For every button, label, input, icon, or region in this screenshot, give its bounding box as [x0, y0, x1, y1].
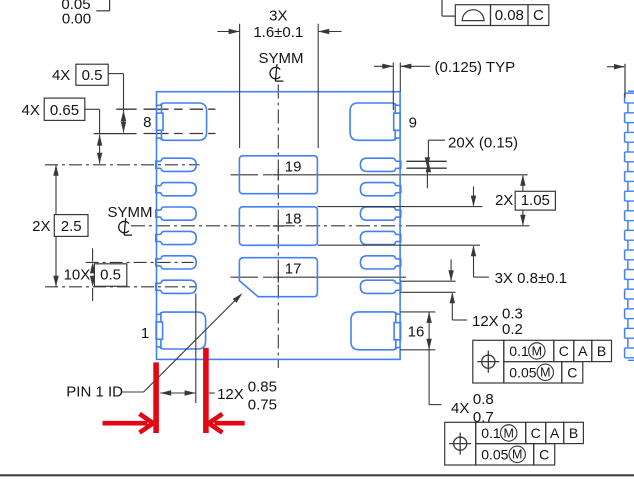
pad 17 center cross — [273, 276, 284, 278]
svg-text:2X: 2X — [495, 192, 513, 209]
svg-text:1.05: 1.05 — [521, 192, 550, 209]
red gauge line left — [153, 362, 159, 433]
svg-text:0.65: 0.65 — [50, 102, 79, 119]
thermal pad 19 — [239, 156, 317, 194]
svg-text:SYMM: SYMM — [259, 50, 304, 67]
lead hidden line pad 8 upper — [144, 108, 216, 110]
svg-text:16: 16 — [408, 324, 425, 341]
PIN 1 ID leader — [122, 391, 144, 393]
pad 1 edge jogs — [157, 312, 161, 349]
svg-text:0.05: 0.05 — [481, 447, 508, 463]
svg-text:1: 1 — [141, 325, 149, 342]
pad pin 10 (right row) — [360, 280, 400, 293]
leader stub 12X — [209, 392, 215, 394]
pad 9 lead tab — [394, 113, 401, 130]
pad pin 7 (left row) — [156, 280, 196, 293]
leader 3X 0.8 — [474, 276, 490, 278]
extension lines for 1.6 dim — [239, 24, 241, 148]
svg-text:A: A — [550, 425, 560, 441]
pad pin 12 (right row) — [360, 231, 400, 244]
arrows 0.8 dim — [473, 187, 475, 206]
svg-text:4X: 4X — [22, 102, 40, 119]
leader 20X (0.15) — [428, 139, 445, 141]
svg-text:8: 8 — [143, 114, 151, 131]
red gauge line right — [203, 348, 209, 433]
svg-text:1.6±0.1: 1.6±0.1 — [253, 24, 303, 41]
pad pin 11 (right row) — [360, 256, 400, 269]
pad 9 edge jogs — [395, 103, 400, 140]
arrows 0.3/0.2 — [450, 259, 452, 280]
centerline pin 7 — [45, 286, 196, 288]
arrows (0.125) — [374, 65, 393, 67]
red arrow left — [103, 421, 148, 426]
svg-text:0.5: 0.5 — [82, 67, 103, 84]
svg-text:0.2: 0.2 — [502, 321, 523, 338]
pad pin 6 (left row) — [156, 256, 196, 269]
arrows for 1.6 dim — [217, 31, 239, 33]
boxed dimension 2.5 — [54, 215, 88, 237]
pad 8 edge jogs — [157, 103, 162, 140]
dimension line 2.5 — [55, 165, 57, 287]
svg-text:C: C — [533, 7, 544, 24]
svg-text:C: C — [531, 425, 541, 441]
svg-text:0.08: 0.08 — [495, 7, 524, 24]
svg-text:18: 18 — [285, 210, 302, 227]
horizontal SYMM centerline — [131, 225, 413, 227]
svg-text:0.5: 0.5 — [100, 267, 121, 284]
arrow up 1.05 — [522, 176, 524, 192]
svg-text:0.8: 0.8 — [473, 391, 494, 408]
extension line pad length — [195, 294, 197, 404]
arrows lead width 0.5 — [121, 110, 126, 121]
pad 16 lead tab — [394, 323, 401, 340]
pad 8 lead tab — [157, 113, 164, 130]
boxed dimension 1.05 — [515, 191, 555, 210]
thermal pad 17 (chamfered pin-1 corner) — [239, 258, 317, 297]
pad 1 lead tab — [156, 322, 163, 339]
pad pin 4 (left row) — [156, 207, 196, 220]
svg-text:10X: 10X — [64, 267, 91, 284]
svg-text:C: C — [559, 343, 569, 359]
drawing border line — [0, 474, 634, 476]
svg-text:0.75: 0.75 — [248, 396, 277, 413]
extension lines pad18 height — [317, 206, 482, 208]
pad 9 outline — [350, 103, 395, 140]
leader 12X 0.3/0.2 — [452, 319, 467, 321]
svg-text:0.05: 0.05 — [509, 365, 536, 381]
svg-text:PIN 1 ID: PIN 1 ID — [66, 384, 123, 401]
svg-text:19: 19 — [285, 159, 302, 176]
pad 19 center line — [231, 174, 259, 176]
boxed dimension 0.65 — [44, 98, 85, 120]
svg-text:C: C — [539, 446, 549, 462]
leader 0.65 box — [85, 108, 100, 110]
pad pin 13 (right row) — [360, 207, 400, 220]
svg-text:C: C — [567, 364, 577, 380]
pad pin 14 (right row) — [360, 183, 400, 196]
package body outline — [157, 92, 401, 360]
tick lines lead width — [116, 108, 136, 110]
position feature control frame lower — [445, 422, 476, 465]
horizontal SYMM centerline solid right segment — [413, 225, 530, 227]
arrows 0.65 dim — [97, 135, 102, 146]
svg-text:B: B — [569, 425, 578, 441]
svg-text:A: A — [578, 343, 588, 359]
svg-text:20X (0.15): 20X (0.15) — [448, 135, 518, 152]
centerline symbol top — [270, 64, 283, 81]
arrow down 1.05 — [522, 210, 524, 225]
svg-text:(0.125) TYP: (0.125) TYP — [435, 59, 516, 76]
svg-text:0.00: 0.00 — [62, 11, 91, 28]
second view datum arrow — [607, 66, 624, 68]
svg-text:9: 9 — [409, 114, 417, 131]
lead hidden line pad 8 lower — [144, 133, 216, 135]
pad 16 edge jogs — [396, 312, 400, 350]
second view package edge with terminals — [624, 93, 626, 103]
svg-text:M: M — [540, 366, 550, 380]
extension lines pin15 width — [400, 280, 455, 282]
svg-text:4X: 4X — [451, 400, 469, 417]
red arrow right — [214, 421, 244, 426]
pad pin 5 (left row) — [156, 231, 196, 244]
position feature control frame upper — [473, 340, 504, 383]
thermal pad 18 — [239, 207, 317, 246]
svg-text:B: B — [597, 343, 606, 359]
svg-text:M: M — [503, 426, 513, 440]
dimension arrows 0.85 — [160, 390, 171, 395]
tick lines 0.15 gap — [406, 160, 446, 162]
svg-text:2X: 2X — [32, 218, 50, 235]
boxed dimension 0.5 — [76, 64, 108, 85]
pad 16 outline — [351, 312, 396, 350]
pad 17 center line — [231, 276, 259, 278]
leader 4X 0.8/0.7 — [428, 350, 430, 405]
pad pin 2 (left row) — [156, 158, 196, 171]
boxed dimension 0.5 pitch — [94, 264, 126, 287]
svg-text:3X: 3X — [269, 7, 287, 24]
svg-text:0.85: 0.85 — [248, 379, 277, 396]
svg-text:SYMM: SYMM — [108, 204, 153, 221]
arrows pitch 0.5 — [92, 248, 94, 261]
svg-text:4X: 4X — [52, 67, 70, 84]
svg-text:12X: 12X — [217, 386, 244, 403]
pad pin 3 (left row) — [156, 183, 196, 196]
pad 18 center cross — [273, 225, 284, 227]
svg-text:3X 0.8±0.1: 3X 0.8±0.1 — [495, 270, 567, 287]
extension lines pad16 — [400, 311, 435, 313]
extension lines (0.125) — [392, 63, 394, 111]
dimension arrows pad16 height — [426, 312, 431, 323]
leader to profile FCF — [441, 0, 443, 16]
leader 0.5 box — [108, 73, 123, 75]
pad pin 15 (right row) — [360, 158, 400, 171]
leader for 0.05/0.00 — [96, 10, 109, 12]
pad 19 center cross — [273, 174, 284, 176]
svg-text:0.1: 0.1 — [509, 343, 529, 359]
svg-text:12X: 12X — [472, 313, 499, 330]
svg-text:M: M — [512, 448, 522, 462]
svg-text:2.5: 2.5 — [61, 218, 82, 235]
pad 1 outline — [161, 312, 206, 349]
svg-text:17: 17 — [285, 261, 302, 278]
svg-text:0.3: 0.3 — [502, 305, 523, 322]
vertical SYMM centerline — [277, 85, 279, 369]
centerline pin 2 (net) — [45, 164, 200, 166]
centerline pin 6 — [86, 261, 194, 263]
profile-of-surface feature control frame 0.08 C — [455, 5, 490, 26]
arrow below 0.15 — [425, 157, 430, 168]
centerline symbol left — [119, 218, 132, 235]
pad 8 outline — [162, 103, 207, 140]
svg-text:0.1: 0.1 — [481, 425, 501, 441]
svg-text:M: M — [532, 344, 542, 358]
